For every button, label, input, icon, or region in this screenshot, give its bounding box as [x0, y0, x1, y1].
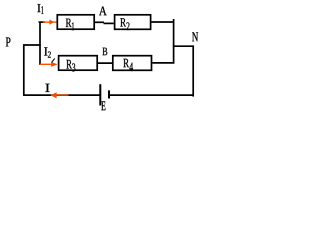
wire bottom left (rail to battery) — [23, 94, 100, 96]
battery E long plate — [99, 84, 101, 105]
node P label — [6, 38, 11, 47]
stray ink tick above I2 arrowhead — [52, 58, 55, 62]
label I2 — [44, 47, 47, 55]
resistor R3 box — [59, 56, 98, 70]
wire bottom right (battery to V3) — [110, 94, 194, 96]
wire R4 output to V2 bottom — [152, 62, 174, 64]
label R3 — [66, 60, 72, 69]
current arrow I (orange, pointing left) — [51, 94, 69, 96]
wire R2 output to V2 — [151, 21, 174, 23]
label I (main current) — [45, 84, 49, 92]
node A wire right half — [104, 22, 114, 24]
resistor R2 box — [115, 15, 151, 29]
wire P horizontal — [23, 44, 41, 46]
current arrow I1 (orange) — [43, 21, 57, 23]
node A label — [99, 7, 107, 16]
wire left rail vertical — [23, 44, 25, 95]
battery label E — [101, 101, 105, 110]
label I1 — [37, 4, 40, 12]
wire H2 to node N — [173, 45, 194, 47]
resistor R4 box — [113, 56, 152, 71]
resistor R1 box — [57, 15, 94, 29]
battery E short plate — [108, 90, 110, 98]
wire vertical V2 — [173, 19, 175, 64]
node B label — [103, 48, 108, 56]
wire R1 to node A (with slight jog) — [95, 21, 104, 23]
wire branch vertical V1 — [39, 22, 41, 65]
wire vertical V3 right side down — [192, 46, 194, 97]
label R2 — [120, 18, 126, 26]
wire R3 to node B to R4 — [97, 62, 113, 64]
wire top row into R1 — [39, 21, 46, 23]
current arrow I2 (orange) — [40, 63, 52, 65]
label R4 — [123, 59, 129, 67]
label R1 — [66, 19, 72, 27]
node N label — [192, 32, 198, 41]
